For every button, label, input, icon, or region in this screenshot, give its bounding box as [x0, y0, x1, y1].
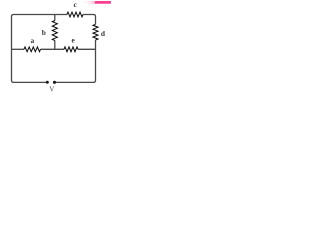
svg-text:b: b: [42, 28, 46, 37]
svg-text:V: V: [49, 85, 55, 93]
svg-text:a: a: [30, 36, 34, 45]
